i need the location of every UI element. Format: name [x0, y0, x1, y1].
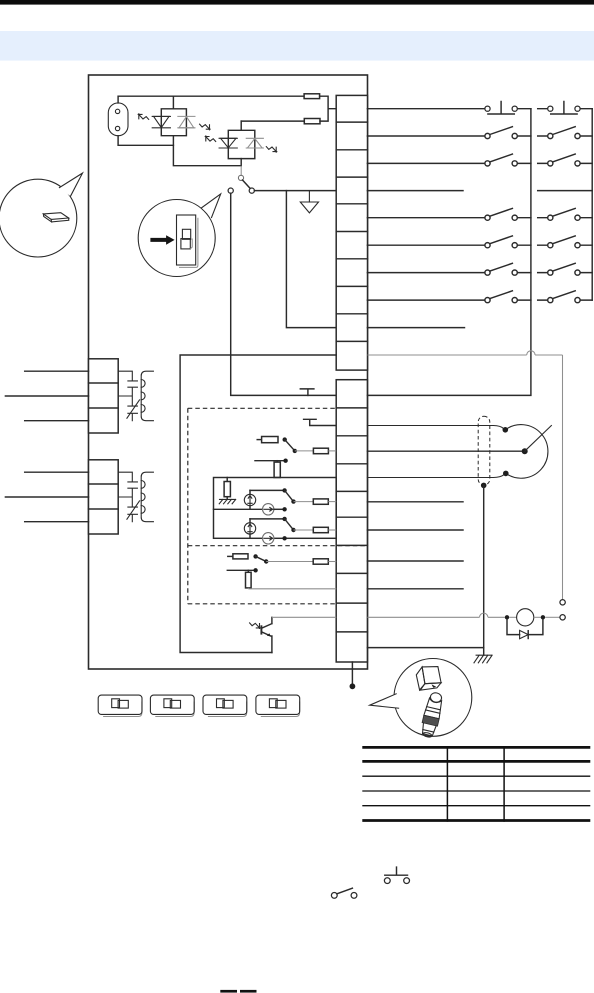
switch S4 lower contact wire	[227, 568, 258, 572]
wire LED pair1 bottom to switch line	[173, 136, 241, 166]
source symbol B1	[244, 490, 255, 509]
slide switch icon 2	[150, 695, 194, 716]
plug drawing in balloon C	[419, 691, 444, 738]
connector stem and node	[350, 662, 356, 689]
row3 wires	[367, 162, 592, 164]
motor row wire with hop	[367, 613, 504, 617]
filter plate inside balloon A	[43, 213, 68, 222]
main board outline	[89, 75, 368, 669]
arrow pointer in balloon B	[150, 235, 174, 245]
transformer block L1	[5, 359, 153, 433]
light arrow to Q1	[250, 623, 261, 629]
source symbol B2	[244, 519, 255, 538]
resistor R10 to pin	[266, 559, 336, 564]
switch SW5b	[548, 208, 580, 220]
switch SW6a	[485, 236, 517, 248]
row10 wire with hop	[367, 351, 562, 355]
switch SW3a	[485, 127, 517, 139]
pushbutton SW2a	[485, 102, 517, 115]
ganged link dashed oval	[478, 416, 490, 485]
slide switch icon 1	[98, 695, 142, 716]
switch SW4b	[548, 154, 580, 166]
wire lamp bottom	[118, 136, 173, 146]
rotation sensor M1	[214, 504, 287, 515]
terminal mark T1	[300, 389, 314, 396]
switch SW4a	[485, 154, 517, 166]
connector strip lower CN2	[336, 380, 367, 662]
wire drop to terminal	[562, 355, 564, 600]
earth symbol E1	[300, 191, 318, 213]
wire Q1 collector to pin	[272, 616, 336, 618]
wire ganged link to ground	[483, 485, 485, 655]
LED pair D3 D4	[219, 121, 264, 159]
slide switch icon 4	[256, 695, 300, 716]
big loop box	[180, 355, 336, 653]
switch SW8a	[485, 291, 517, 303]
switch SW7a	[485, 263, 517, 275]
chassis ground G1	[474, 655, 492, 663]
row1 pushbutton wires	[367, 108, 592, 110]
blue title band	[0, 31, 594, 61]
row4 plain wires	[367, 190, 592, 192]
bus left switch column	[367, 109, 531, 396]
resistor R7 to pin	[294, 499, 337, 504]
resistor R4 to pin	[295, 448, 336, 454]
balloon callout C circle	[370, 659, 472, 737]
switch SW5a	[485, 208, 517, 220]
slide power switch SW1	[228, 175, 254, 193]
phototransistor Q1	[261, 617, 272, 652]
transformer block L2	[5, 460, 153, 534]
top black header bar	[0, 0, 594, 5]
balloon callout A circle	[0, 173, 83, 257]
connector strip upper CN1	[336, 95, 367, 370]
switch S2 contacts	[250, 488, 296, 504]
legend switch symbol	[331, 888, 357, 898]
wire LED pair2 bottom drop	[240, 159, 242, 166]
diode D5 bypass	[507, 620, 543, 639]
switch SW7b	[548, 263, 580, 275]
pushbutton SW2b	[548, 102, 580, 115]
switch SW6b	[548, 236, 580, 248]
legend pushbutton symbol	[384, 867, 409, 883]
balloon callout B circle	[138, 194, 221, 277]
bus right switch column	[591, 109, 593, 300]
switch S1 lower contact wire	[255, 459, 288, 463]
wire lamp top feed	[118, 96, 304, 103]
terminal circle lower	[560, 615, 565, 620]
resistor R3	[257, 437, 278, 443]
dashed module boundary	[188, 408, 368, 604]
resistor R5 vertical	[274, 461, 280, 478]
switch SW3b	[548, 127, 580, 139]
footer page marks	[220, 990, 237, 993]
inner control box	[214, 478, 337, 539]
row5 wires	[367, 217, 592, 219]
switch S4 contacts	[253, 554, 268, 564]
slide switch drawing in balloon B	[177, 215, 198, 267]
resistor R6 vertical with ground	[224, 478, 230, 500]
wire resistor bus to pin1	[320, 96, 337, 121]
wire pin row to ground stem	[367, 647, 483, 649]
node on ganged link	[481, 483, 487, 489]
row6 wires	[367, 244, 592, 246]
light arrows for D3 D4	[205, 136, 216, 142]
free pin wires lower right	[367, 502, 463, 589]
slide switch icon 3	[203, 695, 247, 716]
terminal circle upper	[560, 600, 565, 605]
resistor R9	[228, 554, 248, 559]
wire loop pin4 to pin9	[286, 191, 336, 328]
data table	[362, 746, 590, 822]
resistor R11 vertical	[246, 570, 337, 589]
wire switch to pin4 row	[254, 190, 336, 192]
row9 free wire	[367, 327, 464, 329]
switch S3 contacts	[250, 517, 296, 533]
chassis ground G2	[219, 499, 236, 503]
motor M3	[505, 609, 560, 626]
rotation sensor M2	[263, 533, 287, 544]
neon lamp PL1	[108, 103, 128, 136]
row8 wires	[367, 299, 592, 301]
resistor R1	[304, 94, 320, 99]
terminal mark T2	[304, 419, 337, 425]
row2 wires	[367, 135, 592, 137]
wire LED pair2 feed	[241, 120, 304, 122]
switch S1 contacts	[283, 437, 297, 453]
connector cube in balloon C	[416, 667, 441, 691]
switch SW8b	[548, 291, 580, 303]
resistor R2	[304, 119, 320, 124]
resistor R8 to pin	[294, 527, 337, 532]
wire switch NC contact down	[231, 193, 337, 395]
light arrows for D1 D2	[138, 114, 149, 120]
row7 wires	[367, 272, 592, 274]
LED pair D1 D2	[152, 96, 195, 136]
timer rotary switch SW9	[367, 425, 551, 479]
